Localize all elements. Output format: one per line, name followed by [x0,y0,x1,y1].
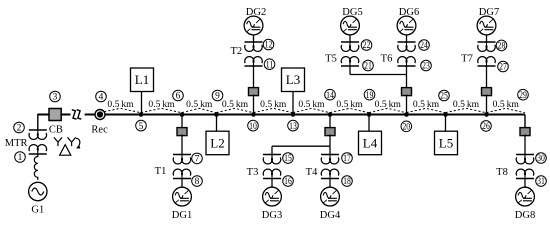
node 29 label [518,89,529,101]
svg-text:0.5 km: 0.5 km [298,99,325,110]
node 12 label [263,39,274,51]
wire DG7 to T7 [486,35,488,42]
junction node 9 [214,112,219,117]
junction node 26 [484,112,489,117]
node 10 label [248,120,259,132]
switch on T6 branch [402,88,412,96]
load L4 [359,131,382,155]
junction node 6 [180,112,185,117]
svg-text:L4: L4 [363,135,378,150]
MTR winding symbol wye 2 with phase-shift arrow [68,137,76,146]
grid impedance coil [34,154,38,180]
generator G1 [29,182,47,200]
0.5 km segment marker 5 [254,108,294,113]
svg-text:DG3: DG3 [262,210,282,221]
substation riser wire [38,115,49,131]
svg-text:DG7: DG7 [479,7,499,18]
0.5 km segment marker 1 [100,108,141,113]
node 21 label [363,60,374,71]
svg-text:DG4: DG4 [320,210,341,221]
svg-text:26: 26 [482,122,490,132]
svg-text:T3: T3 [247,167,259,178]
wire L3 to feeder [292,92,294,114]
svg-text:17: 17 [343,154,351,164]
svg-text:T2: T2 [230,46,242,57]
svg-text:16: 16 [284,177,292,187]
svg-text:0.5 km: 0.5 km [453,99,480,110]
transformer T1 [173,155,191,179]
svg-text:DG6: DG6 [399,7,419,18]
junction node 10 [251,112,256,117]
svg-text:8: 8 [195,177,200,187]
node 1 label [15,152,26,164]
svg-text:27: 27 [499,63,507,73]
transformer T2 [245,42,263,66]
svg-text:10: 10 [249,122,257,132]
svg-text:12: 12 [265,41,273,51]
DG unit DG6 [397,16,416,35]
junction node 19 [367,112,372,117]
svg-text:29: 29 [519,91,527,101]
node 6 label [173,90,184,102]
node 17 label [342,153,353,165]
svg-text:11: 11 [266,60,274,70]
svg-text:13: 13 [289,122,297,132]
svg-text:0.5 km: 0.5 km [186,99,213,110]
node 24 label [419,40,430,52]
load L2 [206,131,229,155]
node 31 label [536,176,547,188]
svg-text:22: 22 [363,41,371,51]
wire feeder to L5 [445,116,447,131]
transformer T8 [516,155,534,179]
wire T3 to DG3 [271,179,273,188]
transformer T5 [341,42,359,66]
main feeder line [105,114,525,116]
load L5 [435,131,458,155]
wire switch to T1 [181,135,183,155]
wire feeder to L4 [368,116,370,131]
svg-text:L2: L2 [210,135,224,150]
0.5 km segment marker 9 [407,108,446,113]
node 5 label [136,120,147,132]
svg-text:0.5 km: 0.5 km [222,99,249,110]
svg-text:L3: L3 [286,72,300,87]
svg-text:18: 18 [343,177,351,187]
wire L1 to feeder [141,92,143,114]
node 4 label [96,91,107,103]
junction node 25 [443,112,448,117]
svg-text:30: 30 [537,154,545,164]
svg-text:0.5 km: 0.5 km [148,99,175,110]
svg-text:CB: CB [49,124,63,135]
svg-text:9: 9 [215,92,220,102]
wire T5 to tie line [349,66,351,75]
svg-text:0.5 km: 0.5 km [375,99,402,110]
0.5 km segment marker 6 [293,108,330,113]
switch on T8 branch [520,128,530,136]
svg-text:DG5: DG5 [342,7,362,18]
wire DG5 to T5 [349,35,351,42]
svg-text:DG2: DG2 [246,7,266,18]
wire T1 to DG1 [181,179,183,188]
svg-text:DG8: DG8 [515,210,535,221]
svg-text:25: 25 [440,92,448,102]
svg-text:T7: T7 [461,54,473,65]
main transformer MTR [29,130,47,154]
svg-text:T8: T8 [496,167,508,178]
wire T8 to DG8 [524,179,526,188]
0.5 km segment marker 3 [182,108,217,113]
svg-text:31: 31 [537,177,545,187]
wire T6 to tie line [406,66,408,75]
wire switch to feeder [486,95,488,114]
wire feeder to T4 switch [329,116,331,129]
svg-text:28: 28 [498,42,506,52]
junction node 20 [404,112,409,117]
svg-text:15: 15 [284,154,292,164]
transformer T3 [263,155,281,179]
svg-text:T4: T4 [306,167,318,178]
DG unit DG4 [321,187,340,206]
svg-text:G1: G1 [31,205,44,216]
svg-text:3: 3 [53,93,58,103]
wire feeder to T1 switch [181,116,183,129]
node 7 label [192,153,203,165]
svg-text:21: 21 [364,62,372,72]
node 13 label [288,120,299,132]
svg-text:0.5 km: 0.5 km [260,99,287,110]
wire to T4 [329,146,331,154]
DG unit DG2 [244,16,263,35]
DG unit DG7 [477,16,496,35]
svg-text:T6: T6 [381,54,393,65]
wire tie to switch [406,75,408,90]
tie wire T3-T4 [272,145,330,147]
feeder end riser to T8 [524,115,526,130]
switch on T2 branch [249,88,259,96]
svg-text:5: 5 [139,122,144,132]
svg-text:24: 24 [420,41,428,51]
node 28 label [496,40,507,51]
svg-text:7: 7 [195,155,200,165]
svg-text:19: 19 [366,91,374,101]
wire DG2 to T2 [253,35,255,42]
tie wire T5-T6 [350,74,407,76]
node 3 label [50,91,61,103]
node 2 label [14,122,25,134]
junction node 14 [328,112,333,117]
MTR winding symbol delta [60,145,71,156]
svg-text:0.5 km: 0.5 km [493,99,520,110]
DG unit DG3 [263,187,282,206]
main feeder line left section (bus from MTR corner to break) [38,114,71,116]
wire break-to-recloser [85,114,95,116]
svg-text:6: 6 [176,92,181,102]
svg-text:Rec: Rec [91,124,108,135]
node 18 label [342,176,353,188]
svg-text:T1: T1 [155,166,167,177]
switch on T1 branch [177,128,187,136]
node 14 label [325,89,336,101]
transformer T6 [398,42,416,66]
conductor break symbol [72,110,81,120]
svg-text:4: 4 [99,93,104,103]
wire T4 to DG4 [329,179,331,188]
svg-text:14: 14 [326,91,334,101]
transformer T7 [478,42,496,66]
junction node 5 [139,112,144,117]
0.5 km segment marker 10 [446,108,487,113]
node 25 label [439,90,450,102]
node 23 label [421,60,432,71]
0.5 km segment marker 11 [487,108,526,113]
svg-text:23: 23 [422,62,430,72]
node 15 label [283,153,294,165]
svg-text:T5: T5 [325,54,337,65]
wire T7 to switch [486,66,488,89]
svg-text:MTR: MTR [5,138,28,149]
wire switch to feeder [253,95,255,114]
node 30 label [536,153,547,165]
MTR winding symbol wye 1 [54,137,62,146]
transformer T4 [321,155,339,179]
load L3 [282,68,305,92]
0.5 km segment marker 2 [141,108,182,113]
wire DG6 to T6 [406,35,408,42]
svg-text:0.5 km: 0.5 km [107,99,134,110]
node 26 label [481,121,492,133]
svg-text:20: 20 [402,123,410,133]
node 16 label [283,176,294,188]
wire switch to tie [329,135,331,147]
wire T2 to switch [253,66,255,89]
load L1 [131,68,154,92]
junction node 13 [291,112,296,117]
svg-text:1: 1 [18,153,23,163]
node 19 label [364,89,375,101]
0.5 km segment marker 7 [330,108,369,113]
svg-text:0.5 km: 0.5 km [413,99,440,110]
node 20 label [401,121,412,133]
switch on T7 branch [482,88,492,96]
circuit breaker CB [49,109,61,121]
node 22 label [361,40,372,52]
switch on T3/T4 branch [325,128,335,136]
node 9 label [212,90,223,102]
svg-text:DG1: DG1 [172,210,192,221]
svg-text:L1: L1 [135,72,149,87]
wire tie to T3 [271,146,273,154]
svg-text:2: 2 [17,124,22,134]
node 27 label [498,61,509,72]
wire switch to T8 [524,135,526,155]
DG unit DG8 [516,187,535,206]
wire switch to feeder [406,95,408,114]
svg-text:L5: L5 [439,135,453,150]
wire feeder to L2 [216,116,218,131]
0.5 km segment marker 8 [369,108,407,113]
node 11 label [264,59,275,71]
recloser Rec [95,110,105,120]
DG unit DG1 [173,187,192,206]
svg-text:0.5 km: 0.5 km [336,99,363,110]
node 8 label [192,176,203,188]
DG unit DG5 [341,16,360,35]
0.5 km segment marker 4 [217,108,254,113]
